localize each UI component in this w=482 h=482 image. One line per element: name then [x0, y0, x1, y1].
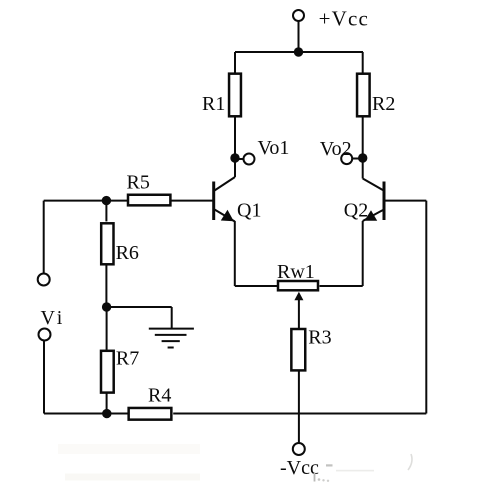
svg-text:R6: R6 — [116, 242, 139, 264]
svg-text:-Vcc: -Vcc — [280, 457, 319, 479]
svg-text:R7: R7 — [116, 348, 139, 370]
svg-text:Q2: Q2 — [344, 199, 368, 221]
svg-text:Rw1: Rw1 — [277, 261, 315, 283]
svg-text:R2: R2 — [372, 93, 395, 115]
svg-text:+Vcc: +Vcc — [319, 6, 369, 30]
svg-text:Vi: Vi — [41, 307, 66, 329]
svg-text:R5: R5 — [127, 171, 150, 193]
svg-text:R1: R1 — [202, 93, 225, 115]
svg-text:Q1: Q1 — [237, 200, 261, 222]
svg-text:Vo1: Vo1 — [258, 137, 290, 159]
svg-text:R4: R4 — [148, 384, 171, 406]
svg-text:Vo2: Vo2 — [320, 138, 352, 160]
svg-text:R3: R3 — [308, 327, 331, 349]
